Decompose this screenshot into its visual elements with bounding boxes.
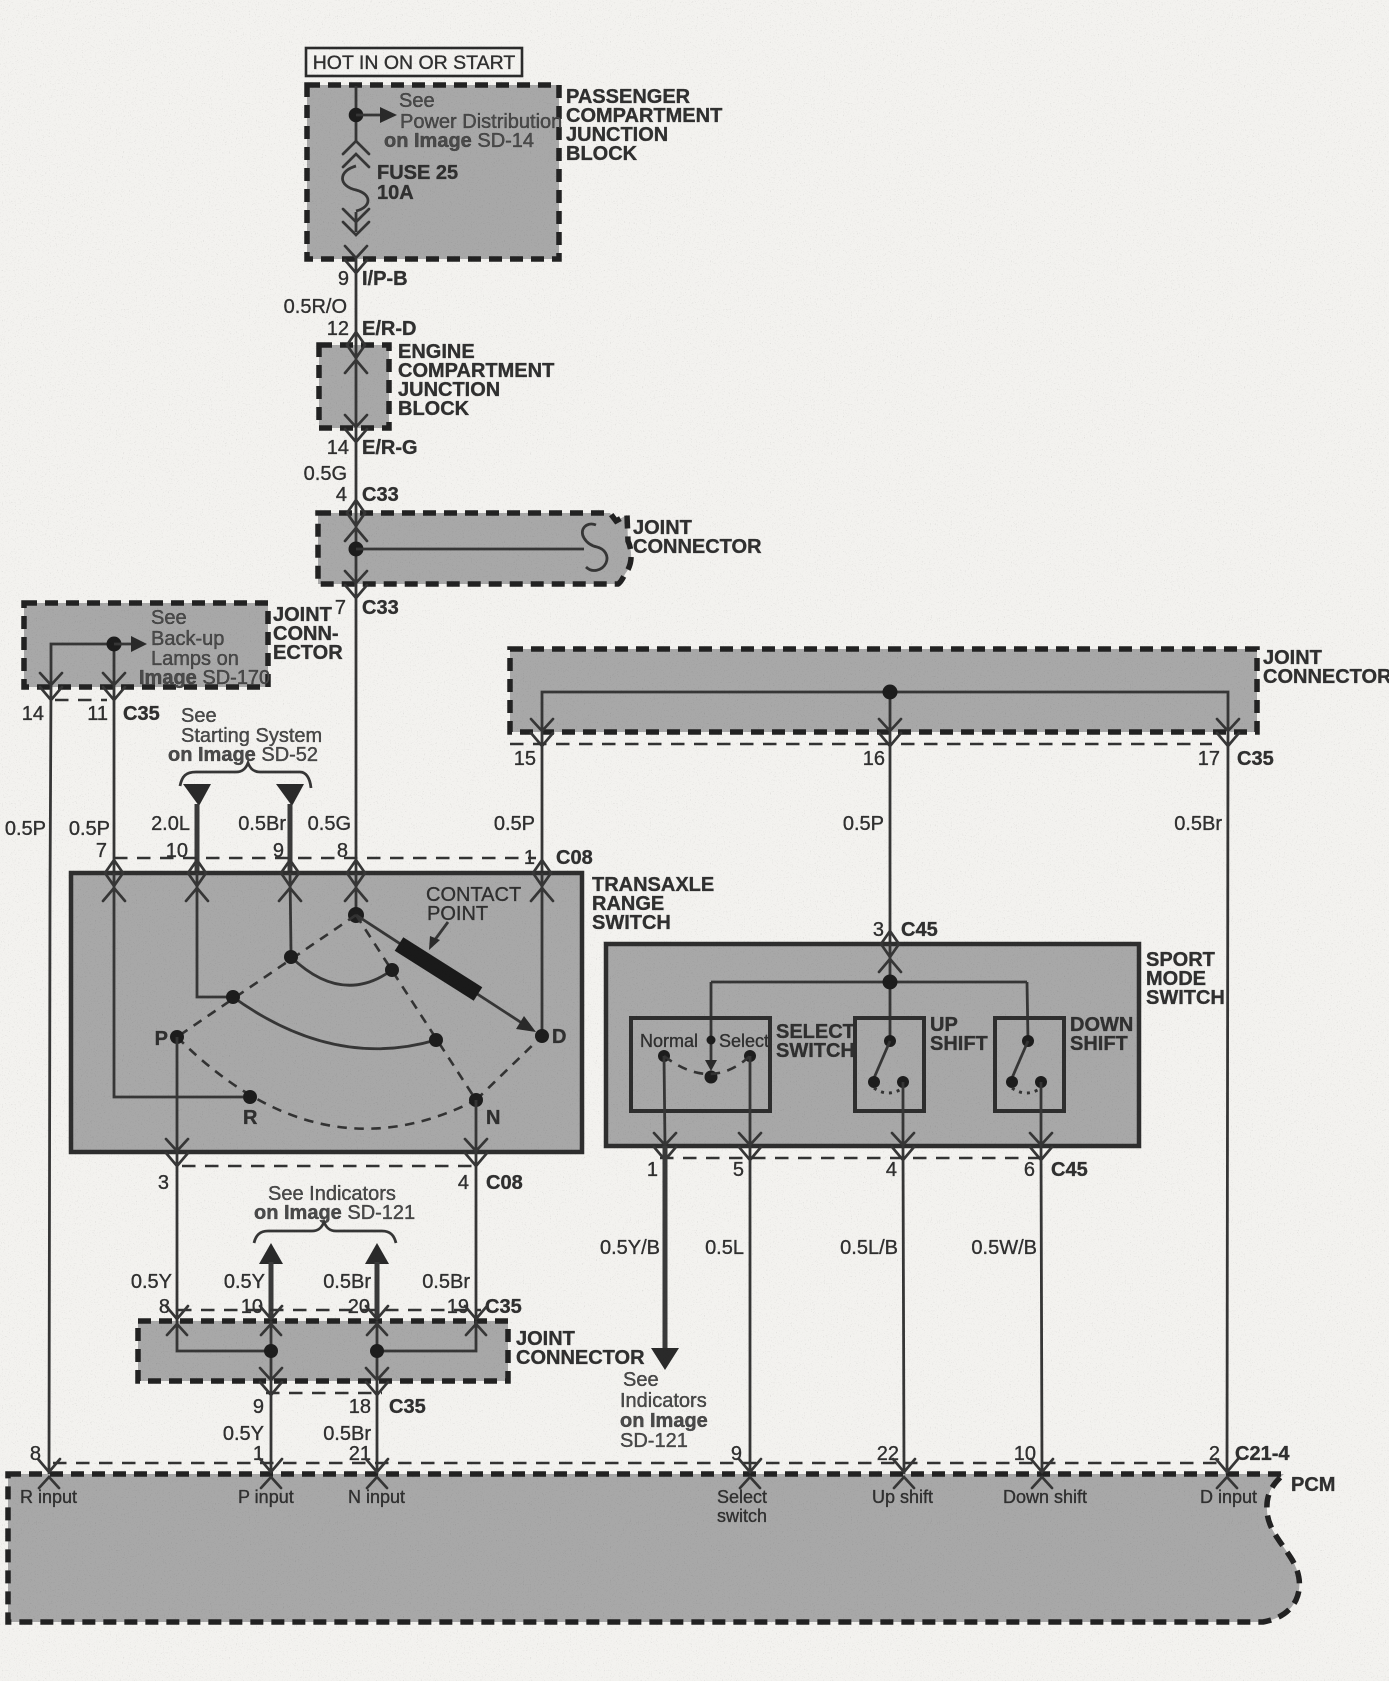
wire 2.0L starting feed (151, 784, 211, 873)
pin 4 connector symbol (345, 500, 367, 541)
connector line C08 top (114, 857, 536, 860)
node pivot dot (348, 907, 364, 923)
wire 0.5G to transaxle pin 8 (308, 584, 356, 873)
pin 8 R PCM connector symbol (20, 1459, 77, 1507)
pin 10 connector symbol (186, 860, 208, 901)
pin 18 C35 connector exit (349, 1368, 426, 1418)
wire C35 bus (542, 692, 1228, 731)
wire dashed arc P R N (177, 1037, 476, 1129)
node joint bus right dot (370, 1344, 384, 1358)
wire 0.5Br to PCM N input (323, 1381, 377, 1474)
connector line C08 bottom (182, 1165, 473, 1168)
wire 0.5P to transaxle pin 1 (494, 732, 593, 873)
pin 9 I/P-B connector exit (338, 246, 408, 290)
pin 8 connector symbol (345, 860, 367, 901)
wire 0.5L/B up shift (840, 1146, 904, 1474)
wire transaxle pin 4 to joint connector pin 19 (422, 1152, 522, 1321)
node C35 bus dot (883, 685, 898, 700)
pin 7 C33 connector exit (335, 571, 399, 619)
wire Select contact to pin 5 (749, 1056, 752, 1146)
wire arc contact 9 (291, 957, 392, 985)
pin 9 connector symbol (279, 860, 301, 901)
node see indicators SD-121 middle (254, 1183, 415, 1243)
pin 2 C21-4 label (1209, 1443, 1290, 1465)
wire 0.5P to PCM R input (5, 686, 51, 1474)
node up shift right contact (897, 1076, 909, 1088)
wire 0.5Br to PCM D input (1174, 732, 1228, 1474)
pin 8 connector symbol (166, 1306, 188, 1335)
node Normal contact dot (658, 1050, 670, 1062)
node up shift top contact (884, 1035, 896, 1047)
pin 4 C33 (336, 484, 399, 506)
joint connector C35 right (510, 647, 1389, 732)
pin 10 down PCM connector symbol (1003, 1459, 1087, 1507)
pin 14 E/R-G connector exit (327, 415, 418, 459)
wire pin 7 to R contact (114, 873, 243, 1097)
wire 0.5L select switch (705, 1146, 750, 1474)
node N contact (469, 1093, 500, 1129)
wire 0.5W/B down shift (971, 1146, 1042, 1474)
node sport bus dot (883, 975, 898, 990)
select switch box (631, 1018, 855, 1111)
node P contact (155, 1028, 184, 1050)
pin 20 label (348, 1296, 370, 1318)
wire joint bus left (177, 1321, 271, 1381)
pin 1 C45 connector exit (647, 1133, 676, 1181)
node down shift right contact (1035, 1076, 1047, 1088)
sport mode switch (606, 944, 1225, 1146)
wiper arm with contact point bar (356, 915, 536, 1032)
pin 4 C08 connector exit (458, 1139, 523, 1194)
pin 7 connector symbol (103, 860, 125, 901)
pin 19 connector symbol (465, 1306, 487, 1335)
wire dashed select wiper (664, 1056, 750, 1074)
wire dotted up shift throw (874, 1088, 903, 1093)
node junction dot power feed (349, 108, 364, 123)
wire dashed N to D (476, 1036, 542, 1100)
fuse F25 connector chevrons top (343, 141, 369, 167)
node Select label (707, 1031, 770, 1051)
engine compartment junction block (319, 341, 554, 428)
node contact dot 10 (226, 990, 240, 1004)
pin 10 label (241, 1296, 263, 1318)
up shift switch box (855, 1014, 988, 1111)
connector line C45 bottom (660, 1157, 1045, 1160)
node down shift top contact (1022, 1035, 1034, 1047)
wire 0.5P to sport mode pin 3 (843, 732, 938, 944)
pin 11 C35 connector exit (87, 673, 159, 725)
wire from hot feed down to fuse (355, 86, 358, 142)
node HOT IN ON OR START (306, 48, 522, 76)
pin 16 C35 connector exit (863, 719, 901, 770)
wire arc contact 10 (233, 997, 436, 1049)
pin 10 connector symbol (260, 1306, 282, 1335)
pin 5 C45 connector exit (733, 1133, 761, 1181)
connector line C35 right (510, 743, 1212, 746)
wire through joint connector C33 (355, 513, 358, 584)
node Normal label (640, 1031, 698, 1051)
wire transaxle pin 3 to joint connector pin 8 (131, 1152, 177, 1321)
wire pin 1 to D contact (541, 873, 544, 1036)
node see starting system SD-52 (168, 705, 322, 788)
pin 12 connector symbol (345, 332, 367, 373)
node contact dot right upper (385, 963, 399, 977)
node R contact (243, 1090, 258, 1129)
node contact point label (426, 884, 521, 950)
pin 3 connector symbol (879, 931, 901, 972)
pin 9 select PCM connector symbol (717, 1459, 767, 1526)
wire N contact to pin 4 (475, 1100, 478, 1152)
wire P contact to pin 3 (176, 1037, 179, 1152)
wire 0.5Y to PCM P input (223, 1381, 271, 1474)
node down shift left contact (1006, 1076, 1018, 1088)
pin 21 N PCM connector symbol (348, 1459, 405, 1507)
wire down shift to pin 6 (1040, 1082, 1043, 1146)
node up shift left contact (868, 1076, 880, 1088)
wire see back-up lamps arrow (114, 607, 270, 689)
pin 15 C35 connector exit (514, 719, 553, 770)
wire 0.5Y indicator arrow (224, 1243, 283, 1321)
pin 2 D PCM connector symbol (1200, 1459, 1257, 1507)
wire 0.5Br starting feed (238, 784, 304, 873)
node select pole dot (705, 1071, 718, 1084)
connector line C35 middle bottom (266, 1392, 382, 1395)
wire through engine junction block (355, 345, 358, 428)
pin 17 C35 connector exit (1198, 719, 1274, 770)
wire 0.5P to transaxle pin 7 (69, 686, 114, 873)
node contact dot 9 (284, 950, 298, 964)
fuse F25 connector chevrons bottom (343, 209, 369, 235)
node D contact (535, 1026, 566, 1048)
pin 9 C35 connector exit (253, 1368, 282, 1418)
fuse FUSE 25 10A element (343, 162, 459, 211)
wire pin 10 to contact (197, 873, 227, 997)
down shift switch box (995, 1014, 1133, 1111)
wire 0.5R/O (284, 259, 356, 345)
node joint bus left dot (264, 1344, 278, 1358)
wire dashed pivot to N (356, 915, 476, 1100)
wire see power distribution arrow (356, 90, 562, 152)
pin 4 C45 connector exit (886, 1133, 914, 1181)
node back-up bus dot (107, 637, 122, 652)
pin 12 E/R-D (327, 318, 417, 340)
pin 8 label PCM (30, 1443, 41, 1465)
wire dotted down shift throw (1012, 1088, 1041, 1093)
pin 1 connector symbol (531, 860, 553, 901)
node select pole arrow (705, 1060, 717, 1071)
node contact dot right lower (429, 1033, 443, 1047)
wire down shift lever (1012, 1041, 1028, 1078)
joint connector C35 middle (138, 1321, 645, 1381)
pin 14 C35 connector exit (22, 673, 62, 725)
node Select contact dot (744, 1050, 756, 1062)
connector line C21-4 (53, 1462, 1218, 1465)
pin 20 connector symbol (366, 1306, 388, 1335)
wire joint bus right (377, 1321, 476, 1381)
wire up shift to pin 4 (902, 1082, 905, 1146)
wire up shift lever (874, 1041, 890, 1078)
wire Normal contact to pin 1 (664, 1056, 665, 1146)
node see indicators SD-121 right (620, 1369, 708, 1452)
pin 3 C08 connector exit (158, 1139, 188, 1194)
wire 0.5G upper (304, 428, 356, 513)
wire 0.5Y/B to indicators (600, 1146, 679, 1370)
transaxle range switch (71, 873, 714, 1152)
joint connector C33 (318, 513, 762, 584)
connector line C35 middle top (178, 1309, 481, 1312)
PCM module box (8, 1474, 1335, 1622)
connector line C35 left (55, 699, 107, 702)
wire sport feed bus (711, 944, 1028, 1062)
wire pin 9 to contact (290, 873, 291, 952)
pin 1 P PCM connector symbol (238, 1459, 294, 1507)
node C33 bus dot (349, 542, 364, 557)
pin 22 up PCM connector symbol (872, 1459, 933, 1507)
wire dashed pivot to P (177, 915, 356, 1037)
pin 6 C45 connector exit (1024, 1133, 1088, 1181)
joint connector back-up lamps (24, 603, 343, 687)
wire back-up lamp bus (51, 644, 114, 686)
wire 0.5Br indicator arrow (323, 1243, 389, 1321)
wire pin 8 to pivot (355, 873, 358, 915)
passenger compartment junction block (307, 85, 722, 259)
wire C33 bus with hook (356, 524, 607, 570)
